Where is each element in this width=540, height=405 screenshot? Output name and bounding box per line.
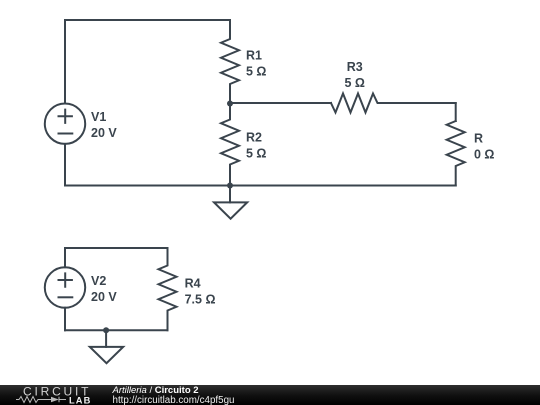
resistor R1 <box>221 20 239 104</box>
resistor R2 <box>221 104 239 186</box>
svg-text:R25 Ω: R25 Ω <box>246 131 266 161</box>
resistor R3 <box>331 94 456 113</box>
wire bottom (main loop) <box>65 185 456 187</box>
resistor R <box>447 121 465 186</box>
ground (top circuit) <box>214 186 247 219</box>
wire V2 bottom <box>64 308 66 331</box>
wire top (V2 to R4) <box>65 248 168 267</box>
wire V1 bottom <box>64 144 66 186</box>
svg-text:V220 V: V220 V <box>91 274 117 304</box>
node B (bottom junction) <box>227 183 233 189</box>
wire bottom (V2 loop) <box>65 329 168 331</box>
svg-text:V120 V: V120 V <box>91 110 117 140</box>
svg-text:http://circuitlab.com/c4pf5gu: http://circuitlab.com/c4pf5gu <box>113 395 235 405</box>
logo squiggle (resistor + diode) <box>16 397 66 403</box>
svg-text:R0 Ω: R0 Ω <box>474 132 494 162</box>
svg-text:R15 Ω: R15 Ω <box>246 49 266 79</box>
resistor R4 <box>159 248 177 330</box>
svg-text:LAB: LAB <box>69 395 91 405</box>
svg-text:R47.5 Ω: R47.5 Ω <box>185 277 216 307</box>
voltage source V1 <box>45 104 85 144</box>
node A (R1/R2/R3 junction) <box>227 101 233 107</box>
ground (bottom circuit) <box>90 330 123 363</box>
wire right vertical <box>455 103 457 121</box>
wire middle (node A to R3) <box>230 102 331 104</box>
node C (V2 ground junction) <box>103 327 109 333</box>
voltage source V2 <box>45 267 85 307</box>
svg-text:R35 Ω: R35 Ω <box>344 60 364 90</box>
footer bar <box>0 385 540 405</box>
wire top (V1 to R1) <box>65 20 230 104</box>
